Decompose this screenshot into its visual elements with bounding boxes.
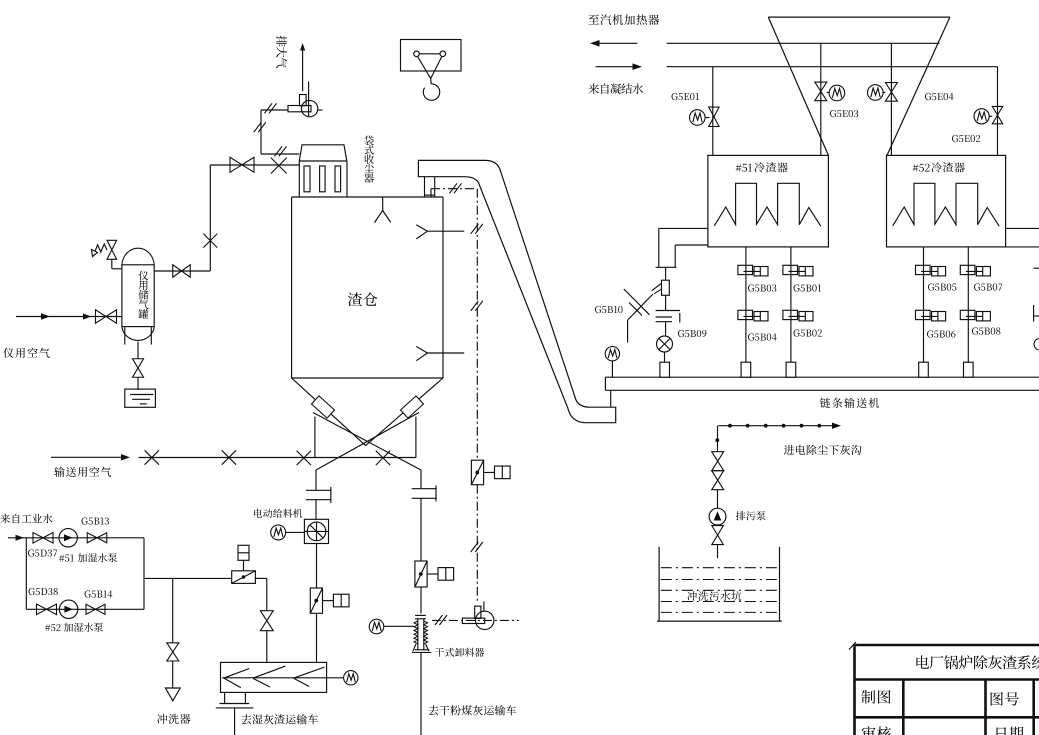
valve on instrument air inlet bbox=[96, 310, 107, 324]
label 去干粉煤灰运输车 bbox=[428, 705, 438, 715]
wire to turbine heater arrow bbox=[592, 42, 637, 44]
label 图号 bbox=[991, 692, 1003, 706]
rotary feeder 电动给料机 bbox=[304, 519, 328, 543]
label #51 冷渣器 bbox=[736, 164, 742, 171]
label 审核 bbox=[862, 726, 876, 735]
label G5B07 bbox=[974, 283, 980, 290]
label 袋式收尘器 bbox=[364, 136, 373, 146]
crane hook symbol bbox=[401, 40, 462, 72]
pipe end flange on chain conveyor bbox=[786, 362, 796, 377]
label 渣仓 bbox=[348, 292, 362, 306]
partial valve group at right edge bbox=[1034, 267, 1039, 269]
bin hopper cone bbox=[292, 378, 366, 446]
label 制图 bbox=[861, 690, 875, 704]
pump #51 加湿水泵 bbox=[59, 529, 77, 547]
label G5E02 bbox=[952, 135, 958, 142]
label 输送用空气 bbox=[54, 467, 64, 477]
dry unloader 干式卸料器 flange bbox=[415, 614, 426, 616]
expansion joint G5B09 line bbox=[656, 310, 680, 312]
label G5B02 bbox=[794, 329, 800, 336]
chain conveyor motor M bbox=[605, 347, 619, 361]
flusher outlet funnel 冲洗器 bbox=[165, 688, 180, 701]
valve X conveying air 1 bbox=[145, 450, 159, 464]
wire tank outlet to riser bbox=[154, 270, 210, 272]
bin vent fork bbox=[382, 197, 384, 211]
label G5B04 bbox=[748, 333, 754, 340]
feeder motor M bbox=[271, 525, 286, 540]
label #51 加湿水泵 bbox=[59, 555, 64, 562]
instrument air inlet 仪用空气 bbox=[16, 316, 122, 318]
boiler slag funnel bbox=[768, 17, 828, 155]
wire diagonal chute G5B10 bbox=[652, 284, 661, 291]
wire cooler discharge pipe x=968.3 bbox=[967, 247, 969, 362]
pipe end flange on chain conveyor bbox=[919, 362, 929, 377]
break mark on suction line bbox=[449, 183, 457, 193]
label G5E01 bbox=[672, 93, 678, 100]
wire dry column upper bbox=[420, 470, 422, 489]
slag cooler #51 bbox=[708, 155, 829, 247]
valve X on riser bbox=[203, 234, 217, 248]
label 仪用空气 bbox=[3, 348, 13, 358]
wire pump2 line bbox=[26, 608, 144, 610]
label exhaust-to-atmosphere 排大气 bbox=[276, 36, 287, 47]
label G5B01 bbox=[794, 284, 800, 291]
bin fluidizing nozzle lower bbox=[416, 347, 427, 354]
break mark bbox=[274, 146, 282, 156]
wire G5E03 branch bbox=[820, 43, 822, 155]
dry unloader bellows bbox=[417, 619, 419, 651]
wire fan discharge bbox=[308, 81, 310, 117]
wire pump loop left branch bbox=[25, 538, 27, 610]
wire riser from air tank bbox=[209, 165, 211, 271]
conveying air header 输送用空气 bbox=[51, 456, 124, 458]
wire G5B09 to conveyor bbox=[664, 352, 666, 362]
wire conveyor discharge down bbox=[234, 708, 236, 735]
pump #52 加湿水泵 bbox=[59, 600, 77, 618]
label G5B10 bbox=[595, 306, 601, 313]
label 来自凝结水 bbox=[588, 83, 599, 94]
bag dust collector 袋式收尘器 bbox=[299, 145, 347, 161]
expansion joint left column bbox=[306, 489, 332, 491]
wire industrial water inlet bbox=[8, 537, 144, 539]
gate valve G5B08 bbox=[960, 310, 975, 319]
dry unloader motor M bbox=[369, 619, 384, 634]
label 干式卸料器 bbox=[435, 648, 444, 657]
label G5E03 bbox=[830, 110, 836, 117]
label G5D37 bbox=[28, 549, 34, 556]
pipe end flange on chain conveyor bbox=[741, 362, 751, 377]
wire condensate header bbox=[667, 66, 998, 68]
valve X on filter air line bbox=[271, 158, 287, 174]
flushing sewage pit 冲洗污水坑 bbox=[658, 547, 660, 621]
exhaust fan P1 bbox=[318, 109, 323, 111]
gate valve G5B05 bbox=[916, 265, 931, 274]
dome valve on suction line bbox=[471, 460, 483, 485]
dome valve on wet column bbox=[310, 588, 322, 613]
wire from condensate arrow bbox=[596, 66, 637, 68]
label 日期 bbox=[997, 727, 1007, 735]
drain pump 排污泵 bbox=[709, 508, 726, 525]
label 链条输送机 bbox=[820, 398, 830, 408]
wire pump loop right join bbox=[143, 538, 145, 610]
valve G5E02 with motor bbox=[992, 106, 1002, 115]
inclined slag conveyor chute bbox=[418, 160, 615, 422]
label 去湿灰渣运输车 bbox=[241, 714, 251, 724]
wire crossover chute left-to-right bbox=[316, 413, 419, 471]
label G5B06 bbox=[927, 330, 933, 337]
valve G5B14 bbox=[86, 604, 96, 614]
flusher valve bbox=[167, 643, 179, 652]
instrument air tank 仪用储气罐 bbox=[122, 248, 154, 265]
wire to dry unloader bbox=[420, 587, 422, 614]
wire dash-dot horizontal to vacuum unit bbox=[432, 619, 519, 621]
chute inlet box on bin top bbox=[424, 177, 426, 197]
wire chute shoe to chain conveyor bbox=[610, 390, 612, 407]
wire cooler discharge pipe x=745.9 bbox=[745, 247, 747, 362]
valve X conveying air 4 bbox=[376, 451, 390, 465]
valve G5B13 bbox=[87, 533, 97, 543]
valve on tank outlet bbox=[173, 265, 182, 278]
gate G5B10 double slash bbox=[624, 289, 650, 315]
label 冲洗污水坑 bbox=[687, 591, 697, 601]
label G5B03 bbox=[748, 284, 754, 291]
label G5D38 bbox=[29, 588, 35, 595]
drain valve 2 bbox=[712, 471, 724, 481]
valve X conveying air 3 bbox=[297, 451, 311, 465]
gate valve G5B02 bbox=[783, 310, 798, 319]
valve G5E03 with motor bbox=[815, 82, 827, 91]
wet ash conveyor 去湿灰渣运输车 bbox=[221, 662, 327, 692]
wire humidify water to branch valve bbox=[144, 577, 232, 579]
valve G5D38 bbox=[37, 604, 47, 615]
valve on filter air line bbox=[230, 157, 242, 172]
wire cooler discharge pipe x=923.5 bbox=[923, 247, 925, 362]
break mark bbox=[435, 615, 443, 625]
wire dash-dot ash suction from bin bbox=[430, 189, 432, 197]
label G5B09 bbox=[678, 330, 684, 337]
label G5B08 bbox=[972, 327, 978, 334]
valve G5E01 with motor bbox=[709, 107, 719, 117]
hopper outlet collar left bbox=[312, 396, 335, 418]
label 至汽机加热器 bbox=[589, 15, 600, 25]
wire fan suction pipe bbox=[261, 109, 288, 111]
bin fluidizing nozzle upper bbox=[416, 225, 427, 232]
wire exhaust pipe with up arrow bbox=[302, 48, 304, 91]
label 冲洗器 bbox=[157, 714, 167, 724]
valve on wet conveyor feed bbox=[260, 611, 273, 621]
valve G5E04 with motor bbox=[885, 83, 897, 92]
label G5B05 bbox=[928, 283, 934, 290]
wire vertical through flange bbox=[665, 295, 667, 310]
wire G5E01 branch bbox=[712, 67, 714, 156]
label #52 冷渣器 bbox=[913, 164, 919, 171]
drain valve 3 bbox=[712, 526, 724, 536]
wire dry discharge down bbox=[420, 652, 422, 735]
wire air line to bag filter y=165 bbox=[210, 164, 299, 166]
gate valve G5B03 bbox=[738, 265, 753, 274]
wire wet column upper bbox=[315, 470, 317, 490]
wet conveyor motor M bbox=[344, 671, 358, 685]
break mark bbox=[471, 542, 479, 552]
dome valve on water branch (horizontal) bbox=[232, 571, 256, 584]
gate valve G5B04 bbox=[738, 310, 753, 319]
wire header to turbine heater bbox=[667, 42, 940, 44]
wire drain branch down bbox=[717, 426, 719, 452]
gate valve G5B01 bbox=[783, 265, 798, 274]
dome valve on dry column bbox=[415, 561, 427, 587]
title block frame bbox=[849, 642, 856, 650]
wire dotted trench line 进电除尘下灰沟 bbox=[718, 425, 836, 427]
title text 电厂锅炉除灰渣系统 bbox=[916, 655, 929, 668]
label G5E04 bbox=[925, 93, 931, 100]
wire flush branch bbox=[172, 578, 174, 642]
wire G5E02 branch bbox=[997, 67, 999, 156]
gate valve G5B07 bbox=[960, 265, 975, 274]
break mark bbox=[254, 122, 262, 132]
flange joint bbox=[656, 266, 677, 268]
wire branch valve to conveyor bbox=[255, 577, 266, 579]
wire cooler discharge pipe x=790.9 bbox=[790, 247, 792, 362]
hopper outlet collar right bbox=[401, 396, 424, 418]
drain valve 1 bbox=[712, 452, 724, 462]
drain water seal tank bbox=[125, 389, 156, 407]
label #52 加湿水泵 bbox=[45, 624, 50, 631]
valve X conveying air 2 bbox=[222, 450, 236, 464]
valve G5B09 circle-X bbox=[657, 336, 673, 352]
conveyor pedestal bbox=[224, 692, 226, 703]
valve G5D37 bbox=[33, 533, 43, 544]
support flange on conveyor bbox=[660, 362, 670, 377]
label 电动给料机 bbox=[254, 509, 262, 518]
label 排污泵 bbox=[736, 511, 745, 520]
vacuum pump unit bbox=[476, 611, 494, 629]
wire crossover chute right-to-left bbox=[313, 413, 421, 471]
wire feeder to dome valve bbox=[316, 544, 318, 589]
gate valve G5B06 bbox=[916, 310, 931, 319]
label G5B13 bbox=[82, 517, 88, 524]
slag cooler #52 bbox=[887, 155, 1006, 247]
break mark bbox=[471, 301, 479, 311]
wire dome valve to conveyor bbox=[316, 613, 318, 662]
expansion joint right column bbox=[412, 488, 437, 490]
wire hopper downpipe left bbox=[314, 417, 316, 458]
wire hopper downpipe right bbox=[415, 417, 417, 458]
tank drain valve bbox=[137, 342, 139, 359]
break mark bbox=[264, 103, 272, 113]
slag bin 渣仓 bbox=[292, 196, 443, 198]
wire G5E04 branch bbox=[890, 43, 892, 155]
wire cooler51 side outlet bbox=[659, 227, 708, 229]
break mark bbox=[471, 224, 479, 234]
chain conveyor 链条输送机 bbox=[605, 376, 1039, 378]
pipe end flange on chain conveyor bbox=[964, 362, 974, 377]
label 来自工业水 bbox=[0, 514, 10, 524]
nozzle box G5B10 inlet bbox=[662, 280, 670, 295]
relief valve on tank bbox=[107, 240, 117, 250]
wire cooler52 right outlet bbox=[1006, 227, 1039, 229]
label 进电除尘下灰沟 bbox=[784, 445, 794, 455]
wire dash-dot vertical bbox=[476, 189, 478, 461]
label G5B14 bbox=[85, 590, 91, 597]
label 仪用储气罐 bbox=[138, 271, 148, 281]
wire cooler51 bottom outlet bbox=[675, 244, 708, 246]
